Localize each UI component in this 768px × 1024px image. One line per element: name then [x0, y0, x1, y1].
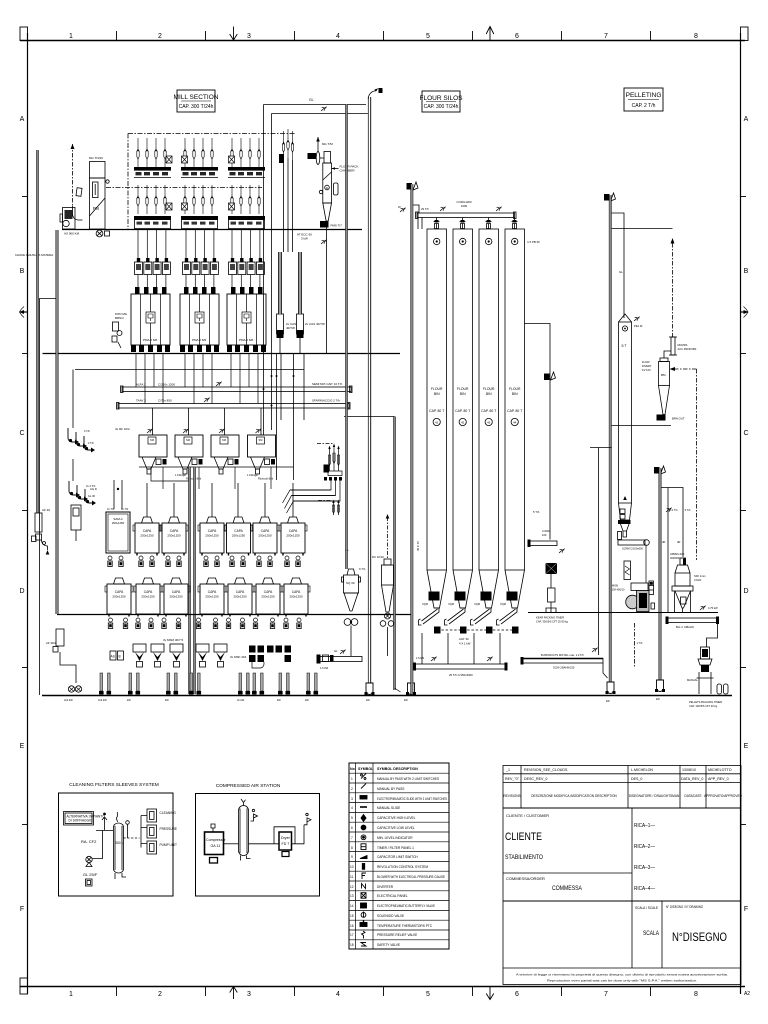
svg-text:REVISIONS: REVISIONS — [503, 794, 520, 798]
svg-text:BIN: BIN — [434, 392, 440, 396]
svg-text:DATA_REV_0: DATA_REV_0 — [681, 777, 703, 781]
svg-text:43: 43 — [487, 420, 491, 424]
wire: pneumatic vertical bundle — [276, 353, 278, 480]
wire: purifier support line — [139, 466, 293, 468]
svg-text:18: 18 — [350, 943, 354, 947]
silo feed drops — [434, 218, 518, 230]
svg-text:kW: kW — [404, 698, 408, 702]
svg-text:29 T/h: 29 T/h — [421, 207, 429, 211]
bypass loop — [274, 827, 295, 844]
svg-text:CAP. 300 T/24h: CAP. 300 T/24h — [424, 104, 459, 110]
svg-text:F: F — [744, 906, 748, 913]
svg-text:VQM: VQM — [500, 602, 506, 606]
plansifter PS2 — [180, 287, 219, 352]
detacher row1 M5 — [225, 517, 253, 556]
svg-text:FDM: FDM — [508, 593, 514, 597]
node: junction dots on conveyors — [263, 388, 265, 390]
elevator heads CAS pair — [277, 252, 304, 353]
cooler unit — [670, 552, 706, 612]
title block — [503, 766, 741, 985]
MSK black box cluster — [249, 646, 291, 663]
svg-text:MILL SECTION: MILL SECTION — [174, 94, 219, 101]
section header FLOUR SILOS — [422, 91, 460, 112]
wire: gray duct mid — [345, 104, 347, 569]
svg-text:GL: GL — [309, 98, 314, 102]
svg-text:PEL M: PEL M — [634, 324, 643, 328]
small conveyor at packing — [529, 541, 557, 546]
svg-text:1 Filtrage: 1 Filtrage — [175, 473, 186, 477]
svg-text:4x T/h: 4x T/h — [107, 507, 115, 511]
pelleting cyclone — [660, 358, 668, 362]
main filter pneumatic duct — [368, 88, 382, 683]
wire: elevator E1 — [411, 184, 413, 694]
wire: ground line — [42, 695, 732, 697]
svg-text:N° DISEGNO / N° DRAWING: N° DISEGNO / N° DRAWING — [666, 905, 703, 909]
svg-text:AF 30: AF 30 — [42, 508, 50, 512]
riser from panel — [102, 817, 107, 830]
svg-text:45 C 15: 45 C 15 — [416, 541, 420, 551]
svg-text:PUMP UNIT: PUMP UNIT — [160, 843, 178, 847]
svg-text:AG D: AG D — [90, 487, 97, 491]
svg-text:12: 12 — [350, 885, 354, 889]
wire: dash-dot x634 — [634, 623, 636, 667]
detacher SAM big — [106, 507, 130, 553]
silo bin 44 — [505, 229, 525, 570]
svg-text:17: 17 — [350, 933, 354, 937]
svg-text:ELECTROPNEUMATIC BUTTERFLY VAL: ELECTROPNEUMATIC BUTTERFLY VALVE — [377, 904, 435, 908]
svg-text:2.2 T/h: 2.2 T/h — [670, 508, 679, 512]
svg-text:BM: BM — [661, 373, 666, 377]
wire: b-products conveyor — [522, 659, 603, 664]
wire: filter drop — [326, 228, 328, 354]
svg-text:3 kW: 3 kW — [301, 237, 308, 241]
svg-text:C/250x 1200: C/250x 1200 — [158, 383, 175, 387]
wire: floor line y425 — [612, 425, 672, 427]
svg-text:D: D — [19, 588, 24, 595]
pellet bin 5T — [619, 314, 632, 322]
svg-text:COMMESSA: COMMESSA — [552, 885, 583, 892]
screw conveyor under bin — [618, 540, 645, 545]
svg-text:CAP. 80 T: CAP. 80 T — [455, 409, 470, 413]
svg-text:COLD: COLD — [694, 578, 701, 582]
silo hoppers — [427, 570, 525, 608]
valve row under floor — [108, 618, 301, 629]
svg-text:SCM C/BAHN/150: SCM C/BAHN/150 — [553, 666, 575, 670]
svg-text:DES_0: DES_0 — [631, 777, 642, 781]
svg-text:CAP. 100 B/5 CFT 40 kg: CAP. 100 B/5 CFT 40 kg — [689, 704, 718, 708]
feeder F3 — [170, 644, 183, 667]
pellets bagging unit — [687, 647, 728, 694]
control panel box — [64, 812, 94, 826]
svg-text:CAPACITIVE HIGH LEVEL: CAPACITIVE HIGH LEVEL — [377, 816, 416, 820]
wire: dash-dot into cyclone — [674, 368, 697, 370]
svg-text:CLEANING FILTERS SLEEVES SYSTE: CLEANING FILTERS SLEEVES SYSTEM — [69, 782, 158, 788]
svg-text:COMMESSA/ORDER: COMMESSA/ORDER — [506, 876, 545, 881]
wire: drops to collecting conveyor — [421, 633, 423, 664]
motor symbol below floor — [96, 230, 103, 237]
svg-text:MANUAL BY PASS: MANUAL BY PASS — [377, 787, 404, 791]
svg-text:9: 9 — [351, 855, 353, 859]
svg-text:4: 4 — [351, 806, 353, 810]
svg-text:A2: A2 — [744, 991, 750, 997]
svg-text:SFK 1mm: SFK 1mm — [694, 574, 706, 578]
svg-text:BIN: BIN — [486, 392, 492, 396]
svg-text:5: 5 — [351, 816, 353, 820]
detacher row1 M4 — [198, 517, 226, 556]
svg-text:PMA.2 6/8: PMA.2 6/8 — [239, 338, 253, 342]
plansifter PS3 — [227, 287, 266, 352]
svg-text:41: 41 — [435, 420, 439, 424]
detacher row1 M6 — [251, 517, 279, 556]
svg-text:CAP. 80 T: CAP. 80 T — [481, 409, 496, 413]
svg-text:VQM: VQM — [474, 602, 480, 606]
svg-text:CLIENTE / CUSTOMER: CLIENTE / CUSTOMER — [506, 813, 549, 818]
purifier P4 — [248, 435, 276, 474]
label FLOUR PACK CHAMBER — [332, 168, 339, 170]
svg-text:16: 16 — [350, 924, 354, 928]
svg-text:CLEANING: CLEANING — [160, 811, 177, 815]
wire: pelleting floor line — [528, 612, 718, 614]
svg-text:SEMI MIX CAP. 10 T/h: SEMI MIX CAP. 10 T/h — [312, 382, 343, 386]
wire: dash-dot aspiration main row2 — [106, 187, 262, 189]
wire: mill plansifter floor line — [43, 353, 401, 355]
svg-text:SAFETY VALVE: SAFETY VALVE — [377, 943, 400, 947]
press feeder sleeve — [624, 561, 631, 580]
svg-text:CAPACITOR LIMIT SWITCH: CAPACITOR LIMIT SWITCH — [377, 855, 418, 859]
wire: plansifter to conveyor drops — [136, 354, 258, 404]
silo labels — [429, 387, 522, 413]
svg-text:DISEGNATORE / DRAUGHTSMAN: DISEGNATORE / DRAUGHTSMAN — [629, 794, 680, 798]
vent flag — [251, 814, 258, 821]
svg-text:2 T/h: 2 T/h — [88, 441, 94, 445]
svg-text:SYMBOL: SYMBOL — [358, 767, 374, 771]
svg-text:RICA–2—: RICA–2— — [634, 844, 655, 850]
svg-text:dR: dR — [662, 540, 665, 544]
small conveyor left of silos — [317, 649, 363, 670]
silo bin 43 — [479, 229, 499, 570]
svg-text:L.MICHELON: L.MICHELON — [631, 768, 653, 772]
sifter row2 S4 — [198, 578, 226, 617]
svg-text:100: 100 — [542, 533, 547, 537]
svg-text:4 X PB 30: 4 X PB 30 — [527, 240, 540, 244]
svg-text:2: 2 — [351, 787, 353, 791]
pump — [86, 856, 92, 862]
svg-text:SCRM C/100x600: SCRM C/100x600 — [622, 547, 643, 551]
svg-text:5 T/h: 5 T/h — [533, 510, 540, 514]
sifter row2 S3 — [162, 578, 190, 617]
cyclone DC — [372, 514, 394, 656]
svg-text:1000: 1000 — [461, 204, 468, 208]
svg-text:9 T/h: 9 T/h — [359, 567, 366, 571]
feeder F5 — [214, 644, 227, 667]
wire: elbow valve to cyclone — [664, 351, 671, 358]
svg-text:MANUAL SLIDE: MANUAL SLIDE — [377, 806, 400, 810]
pipe vessel->dryer — [249, 843, 280, 845]
svg-text:CAP. 300 T/24h: CAP. 300 T/24h — [179, 104, 214, 110]
wire: sifter bus lines right — [290, 489, 331, 491]
svg-text:kW: kW — [127, 698, 131, 702]
sifter row2 S7 — [282, 578, 310, 617]
svg-text:W: W — [398, 205, 401, 209]
hopper screw diagonals — [419, 608, 518, 625]
svg-text:PN: PN — [93, 206, 99, 211]
legend: cleaning filters sleeves system — [59, 782, 178, 896]
plansifter PS1 — [131, 287, 170, 352]
svg-text:MANUAL: MANUAL — [687, 678, 698, 682]
compressor — [205, 832, 224, 855]
roller mill bank row2 B6 — [228, 185, 265, 229]
svg-text:B-PRODUCTS MIX BLL max. 1.2 T/: B-PRODUCTS MIX BLL max. 1.2 T/h — [541, 653, 584, 657]
purifier feed drops — [147, 408, 261, 435]
wire: elevator E2 — [609, 195, 611, 690]
wire: purifier discharge drops — [151, 467, 189, 481]
conditioner tower — [649, 581, 654, 595]
filter vessel — [114, 823, 124, 873]
svg-text:AF 30/1: AF 30/1 — [46, 641, 56, 645]
svg-text:CAP. 80 T: CAP. 80 T — [429, 409, 444, 413]
svg-text:300 L: 300 L — [115, 841, 124, 845]
air receiver vessel — [239, 806, 249, 856]
svg-text:SM: SM — [186, 438, 190, 442]
svg-text:FLOW: FLOW — [642, 360, 650, 364]
sifter row2 S2 — [134, 578, 162, 617]
svg-text:APRES ZAF: APRES ZAF — [670, 552, 685, 556]
svg-text:3: 3 — [247, 991, 251, 998]
wire: drop to bagging — [707, 624, 718, 647]
detacher row1 M7 — [279, 517, 307, 556]
svg-text:1: 1 — [351, 777, 353, 781]
svg-text:25 T/h C/150x3000: 25 T/h C/150x3000 — [449, 673, 473, 677]
svg-text:3x MSK 264: 3x MSK 264 — [230, 655, 247, 659]
svg-text:FDM: FDM — [430, 593, 436, 597]
svg-text:dR: dR — [677, 540, 680, 544]
svg-text:AGT 30: AGT 30 — [459, 637, 469, 641]
svg-text:C/100x: C/100x — [542, 529, 551, 533]
svg-text:APPROVATO/APPROVED: APPROVATO/APPROVED — [704, 794, 743, 798]
wire: silo right duct to packing — [525, 324, 551, 540]
svg-text:ELECTROPNEUMATIC SLIDE WITH 2: ELECTROPNEUMATIC SLIDE WITH 2 LIMIT SWIT… — [377, 797, 447, 801]
svg-text:F: F — [20, 906, 24, 913]
purifier P2 — [175, 435, 203, 474]
svg-text:CAPACITIVE LOW LEVEL: CAPACITIVE LOW LEVEL — [377, 826, 415, 830]
black box BKO — [308, 153, 317, 159]
svg-text:1.5 kW: 1.5 kW — [320, 666, 329, 670]
svg-text:FD 7: FD 7 — [282, 842, 290, 846]
svg-text:GL 30: GL 30 — [88, 494, 96, 498]
wire: mill lower floor line — [57, 614, 412, 616]
valve pairs under row1 — [108, 556, 300, 567]
svg-text:ELECTRICAL PANEL: ELECTRICAL PANEL — [377, 894, 408, 898]
svg-text:1 Filtrage: 1 Filtrage — [247, 473, 258, 477]
legend: compressed air station — [196, 783, 320, 896]
purifier P3 — [211, 435, 239, 474]
svg-text:60x TN/20: 60x TN/20 — [89, 156, 103, 160]
centering arrows — [230, 27, 494, 1000]
spout cluster B — [69, 481, 96, 506]
svg-text:4x4 kW: 4x4 kW — [64, 698, 73, 702]
svg-text:6: 6 — [515, 991, 519, 998]
pipe compressor->vessel — [224, 843, 239, 845]
detacher row1 M3 — [160, 517, 188, 556]
svg-text:kW: kW — [606, 699, 610, 703]
svg-text:PRESSURE RELIEF VALVE: PRESSURE RELIEF VALVE — [377, 933, 417, 937]
bin cone + feeder — [619, 503, 632, 520]
svg-text:42: 42 — [461, 420, 465, 424]
svg-text:3: 3 — [351, 797, 353, 801]
silo bin 41 — [427, 229, 447, 570]
svg-text:5 T: 5 T — [622, 344, 628, 348]
svg-text:C: C — [743, 430, 748, 437]
wire: pipes 2.2/3 T/h — [662, 488, 684, 558]
svg-text:CAP. 300 B/5 CFT 25-50 kg: CAP. 300 B/5 CFT 25-50 kg — [536, 620, 568, 624]
svg-text:MIN. LEVEL INDICATOR: MIN. LEVEL INDICATOR — [377, 836, 413, 840]
svg-text:3 T/h: 3 T/h — [685, 508, 691, 512]
svg-text:kW: kW — [165, 698, 169, 702]
roller mill bank row1 B1 — [134, 138, 172, 177]
roller mill bank row1 B2 — [181, 138, 218, 177]
svg-text:44: 44 — [513, 420, 517, 424]
elevator E1 head — [407, 183, 413, 190]
pellet press ZM — [612, 583, 655, 612]
svg-text:A: A — [744, 116, 749, 123]
flow arrow left margin — [19, 307, 28, 318]
elevator E4 (cooler loop) — [654, 467, 660, 474]
svg-text:DESC_REV_0: DESC_REV_0 — [524, 777, 547, 781]
svg-text:60x T/M: 60x T/M — [322, 142, 333, 146]
hopper discharge boxes — [422, 592, 518, 607]
feeder F1 — [133, 644, 146, 667]
svg-text:8: 8 — [694, 33, 698, 40]
svg-text:GA 11: GA 11 — [211, 844, 221, 848]
wire: boot at duct368 — [365, 683, 375, 695]
left column: duct to bottom — [56, 230, 58, 614]
svg-text:B: B — [119, 655, 121, 659]
feeder F4 — [196, 644, 209, 667]
svg-text:FLOUR: FLOUR — [457, 387, 469, 391]
svg-text:REVOLUTION CONTROL SYSTEM: REVOLUTION CONTROL SYSTEM — [377, 865, 428, 869]
svg-text:kW: kW — [305, 698, 309, 702]
svg-text:4x4 kW: 4x4 kW — [98, 698, 107, 702]
svg-text:APP_REV_0: APP_REV_0 — [708, 777, 729, 781]
svg-text:DATA/DATE: DATA/DATE — [684, 794, 701, 798]
svg-text:4: 4 — [336, 33, 340, 40]
wire: gray discharge duct pair — [189, 467, 191, 694]
svg-text:GL: GL — [334, 649, 338, 653]
svg-text:5: 5 — [426, 991, 430, 998]
svg-text:FLOUR SILOS: FLOUR SILOS — [420, 95, 464, 102]
svg-text:BIN: BIN — [512, 392, 518, 396]
roller mill bank row1 B3 — [228, 138, 265, 177]
roller mill bank row2 B5 — [181, 185, 218, 229]
svg-text:4x RF 10/2: 4x RF 10/2 — [115, 427, 130, 431]
sifter top boxes group2 — [183, 258, 219, 275]
machine on left riser — [71, 505, 81, 530]
svg-text:PM9 T/7: PM9 T/7 — [331, 224, 343, 228]
svg-text:1: 1 — [69, 991, 73, 998]
svg-text:300/300: 300/300 — [670, 556, 680, 560]
sifter row2 S1 — [105, 578, 133, 617]
wire: feed pipe to bin — [612, 213, 625, 318]
svg-text:_1: _1 — [505, 768, 510, 772]
diamond symbol — [76, 188, 82, 197]
svg-text:2x CAS 40/TW: 2x CAS 40/TW — [305, 322, 325, 326]
svg-text:TEMPERATURE THERMISTORS PTC: TEMPERATURE THERMISTORS PTC — [377, 924, 433, 928]
svg-text:GL 25/F: GL 25/F — [83, 872, 98, 877]
sifter row2 S5 — [226, 578, 254, 617]
svg-text:A termine di legge ci riservia: A termine di legge ci riserviamo la prop… — [516, 973, 728, 977]
pump loop — [92, 831, 103, 859]
svg-text:DIVERTER: DIVERTER — [377, 885, 394, 889]
wire: dash-dot aspiration main row1 — [128, 133, 296, 135]
wire: cooler discharge conveyor — [667, 618, 717, 623]
svg-text:DESCRIZIONE MODIFICA /MODIFICA: DESCRIZIONE MODIFICA /MODIFICATION DESCR… — [531, 794, 617, 798]
wire: vertical collector drops — [263, 105, 265, 436]
svg-text:PMA.2 6/8: PMA.2 6/8 — [143, 338, 157, 342]
svg-text:15: 15 — [350, 914, 354, 918]
aspiration candle cluster right — [317, 443, 334, 445]
svg-text:E: E — [744, 743, 749, 750]
svg-text:REV_"0": REV_"0" — [505, 777, 520, 781]
filter AF bottom unit — [46, 629, 82, 702]
svg-text:COMPRESSED AIR STATION: COMPRESSED AIR STATION — [216, 783, 281, 789]
svg-text:BLOWER WITH ELECTRICAL PRESSUR: BLOWER WITH ELECTRICAL PRESSURE GAUGE — [377, 875, 445, 879]
wire: line y228 — [612, 228, 673, 230]
sifter top boxes group1 — [135, 258, 171, 275]
svg-text:A: A — [20, 116, 25, 123]
svg-text:2: 2 — [158, 991, 162, 998]
svg-text:1: 1 — [69, 33, 73, 40]
left feeder boxes AS/B — [110, 651, 124, 660]
svg-text:C/70x 850: C/70x 850 — [158, 399, 172, 403]
packing machine flour — [546, 563, 558, 612]
svg-text:ACC 450/30 BM: ACC 450/30 BM — [678, 347, 697, 351]
svg-text:KV 100: KV 100 — [642, 368, 651, 372]
svg-text:CAP. 80 T: CAP. 80 T — [507, 409, 522, 413]
spout cluster A — [68, 428, 95, 453]
collecting screw conveyor — [415, 664, 506, 669]
svg-text:RICA–4—: RICA–4— — [634, 886, 655, 892]
svg-text:3x MSM 30/7.5: 3x MSM 30/7.5 — [163, 638, 184, 642]
svg-text:PMA.2 6/8: PMA.2 6/8 — [192, 338, 206, 342]
flow arrow right margin — [741, 307, 749, 318]
outlet line dashed — [124, 837, 140, 839]
svg-text:FDM: FDM — [456, 593, 462, 597]
table symbol glyphs — [360, 774, 367, 947]
wire: dash-dot riser x672 — [672, 243, 674, 337]
wire: mill upper floor line — [62, 229, 362, 231]
dryer — [279, 832, 292, 850]
feeder F2 — [151, 644, 164, 667]
wire: collector line y113 — [272, 113, 369, 115]
svg-text:7: 7 — [604, 33, 608, 40]
svg-text:BIN: BIN — [460, 392, 466, 396]
elevator E2 head — [604, 194, 610, 201]
purifier P1 — [139, 435, 167, 474]
svg-text:REVISION_SEE_CLOUDS: REVISION_SEE_CLOUDS — [524, 768, 568, 772]
svg-text:MCMDS: MCMDS — [678, 343, 688, 347]
svg-text:ZM 400/10: ZM 400/10 — [612, 588, 625, 592]
svg-text:PRESSURE: PRESSURE — [160, 827, 178, 831]
svg-text:MICHELOTTO: MICHELOTTO — [708, 768, 732, 772]
svg-text:6: 6 — [515, 33, 519, 40]
silo bin 42 — [453, 229, 473, 570]
roller mill bank row2 B4 — [134, 185, 172, 229]
boots pelleting — [606, 682, 616, 694]
svg-text:250x1250: 250x1250 — [112, 521, 125, 525]
svg-text:RICA–1—: RICA–1— — [634, 823, 655, 829]
candle pair lower — [318, 500, 332, 502]
sifter top boxes group3 — [229, 258, 265, 275]
